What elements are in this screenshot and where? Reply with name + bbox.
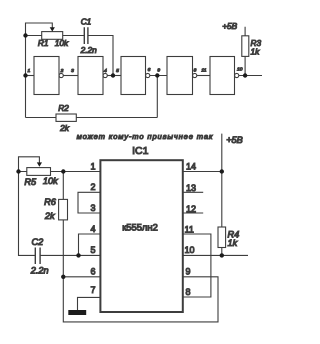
IC pin 5 <box>90 245 95 255</box>
resistor R4 <box>218 227 226 255</box>
pin 5 <box>116 68 119 74</box>
svg-text:7: 7 <box>90 285 95 295</box>
pin 2 <box>60 68 64 74</box>
IC type k555ln2 <box>122 221 158 232</box>
power +5V bottom <box>226 135 243 145</box>
svg-text:5: 5 <box>90 245 95 255</box>
svg-text:14: 14 <box>186 161 196 171</box>
wire pin12 stub <box>183 212 203 214</box>
wire input to gate1 <box>26 75 35 77</box>
label R3 <box>251 38 262 48</box>
wire pin13 stub <box>183 191 203 193</box>
svg-text:12: 12 <box>186 204 196 214</box>
svg-text:5: 5 <box>116 68 119 74</box>
svg-text:2k: 2k <box>59 123 70 133</box>
inverter gate DD1.5 <box>210 57 239 95</box>
power +5V top <box>222 21 237 31</box>
capacitor C2 <box>35 248 40 265</box>
node dot R5-R6 pin1 <box>61 169 65 173</box>
wire gate5 output <box>239 75 262 77</box>
wire pin9 to pin6 wrap <box>63 277 218 322</box>
IC pin 13 <box>186 183 196 193</box>
wire pin11 to pin8 <box>183 234 211 297</box>
svg-text:к555лн2: к555лн2 <box>122 221 158 232</box>
pin 11 <box>201 67 206 73</box>
svg-text:2k: 2k <box>44 211 55 221</box>
pin 8 <box>194 67 197 73</box>
IC pin 1 <box>90 161 95 171</box>
svg-text:R2: R2 <box>58 103 69 113</box>
value 2k <box>44 211 55 221</box>
node dot pin4-5 tap <box>76 253 80 257</box>
IC pin 10 <box>185 245 195 255</box>
wire left rail bottom section <box>19 172 36 256</box>
svg-text:10k: 10k <box>55 38 69 48</box>
svg-text:4: 4 <box>104 68 107 74</box>
IC pin 11 <box>185 224 194 234</box>
label R2 <box>58 103 69 113</box>
label R1 <box>38 38 49 48</box>
svg-text:1k: 1k <box>228 238 238 248</box>
pin 6 <box>148 67 151 73</box>
svg-text:+5В: +5В <box>222 21 237 31</box>
svg-text:11: 11 <box>201 67 206 73</box>
inverter gate DD1.1 <box>34 57 63 95</box>
node dot C1 tap <box>111 73 115 77</box>
node dot R5 left <box>16 169 20 173</box>
resistor R2 <box>26 114 158 121</box>
svg-text:3: 3 <box>90 203 95 213</box>
wire gate4 to gate5 <box>197 75 210 77</box>
svg-text:C1: C1 <box>81 17 92 27</box>
wire pin7 to ground <box>78 297 101 310</box>
IC pin 4 <box>90 224 95 234</box>
node dot R6 pin6 <box>61 275 65 279</box>
label R4 <box>228 229 240 239</box>
svg-text:IC1: IC1 <box>132 145 149 157</box>
node dot R1 left <box>23 33 27 37</box>
wire pin10 output row <box>183 254 248 256</box>
pin 4 <box>104 68 107 74</box>
IC pin 2 <box>90 182 95 192</box>
IC pin 6 <box>90 267 95 277</box>
IC pin 7 <box>90 285 95 295</box>
IC IC1 label <box>132 145 149 157</box>
svg-text:R1: R1 <box>38 38 49 48</box>
IC IC1 body <box>100 160 182 312</box>
label C2 <box>32 237 44 247</box>
ground <box>68 310 86 315</box>
svg-text:может кому-то привычнее так: может кому-то привычнее так <box>77 132 214 141</box>
wire pin4-pin5 loop <box>79 234 101 255</box>
svg-text:13: 13 <box>186 183 196 193</box>
svg-text:6: 6 <box>90 267 95 277</box>
resistor R6 <box>59 172 68 277</box>
IC pin 9 <box>186 267 191 277</box>
svg-text:8: 8 <box>194 67 197 73</box>
resistor R3 <box>242 27 249 76</box>
svg-text:10k: 10k <box>43 176 58 186</box>
svg-text:4: 4 <box>90 224 95 234</box>
wire gate1 to gate2 <box>63 75 78 77</box>
svg-text:9: 9 <box>186 267 191 277</box>
svg-text:6: 6 <box>148 67 151 73</box>
wire C2 to pin5 <box>40 254 100 256</box>
svg-text:R5: R5 <box>24 177 37 187</box>
svg-text:1: 1 <box>90 161 95 171</box>
note text <box>77 132 214 141</box>
pin 1 <box>28 68 31 74</box>
pin 9 <box>157 67 160 73</box>
pin 10 <box>237 66 243 72</box>
svg-text:+5В: +5В <box>226 135 243 145</box>
svg-text:2.2n: 2.2n <box>80 45 98 55</box>
node dot input gate1 <box>23 73 27 77</box>
value 10k <box>43 176 58 186</box>
svg-text:11: 11 <box>185 224 194 234</box>
svg-text:2.2n: 2.2n <box>30 266 49 276</box>
wire gate2 to gate3 <box>107 75 121 77</box>
wire C1 to node between gates <box>88 36 113 76</box>
resistor R5 (potentiometer) <box>19 157 101 176</box>
node dot R2 tap <box>155 73 159 77</box>
inverter gate DD1.2 <box>78 57 107 95</box>
wire pin2-pin3 loop <box>78 192 100 213</box>
svg-text:9: 9 <box>157 67 160 73</box>
value 2.2n <box>80 45 98 55</box>
node dot output <box>243 73 247 77</box>
label R6 <box>44 197 57 207</box>
wire gate3 to gate4 <box>150 75 167 77</box>
value 1k <box>251 46 261 56</box>
capacitor C1 <box>84 27 88 44</box>
svg-text:R6: R6 <box>44 197 57 207</box>
IC pin 12 <box>186 204 196 214</box>
svg-text:10: 10 <box>237 66 243 72</box>
svg-text:2: 2 <box>90 182 95 192</box>
node dot pin14 +5V <box>220 169 224 173</box>
inverter gate DD1.3 <box>121 57 150 95</box>
IC pin 3 <box>90 203 95 213</box>
svg-text:C2: C2 <box>32 237 44 247</box>
IC pin 8 <box>186 287 191 297</box>
wire +5V rail to pin14 <box>183 134 222 227</box>
svg-text:2: 2 <box>60 68 64 74</box>
resistor R1 (potentiometer) <box>26 23 85 39</box>
wire R2 to node 6-9 <box>156 76 158 118</box>
svg-text:3: 3 <box>71 68 74 74</box>
node dot R4 pin10 <box>220 253 224 257</box>
svg-text:1: 1 <box>28 68 31 74</box>
inverter gate DD1.4 <box>167 57 197 95</box>
wire left rail top section <box>25 36 27 118</box>
wire pin6 <box>63 276 100 278</box>
value 2.2n <box>30 266 49 276</box>
pin 3 <box>71 68 74 74</box>
svg-text:1k: 1k <box>251 46 261 56</box>
svg-text:8: 8 <box>186 287 191 297</box>
svg-text:10: 10 <box>185 245 195 255</box>
label C1 <box>81 17 92 27</box>
value 1k <box>228 238 238 248</box>
IC pin 14 <box>186 161 196 171</box>
value 2k <box>59 123 70 133</box>
value 10k <box>55 38 69 48</box>
label R5 <box>24 177 37 187</box>
